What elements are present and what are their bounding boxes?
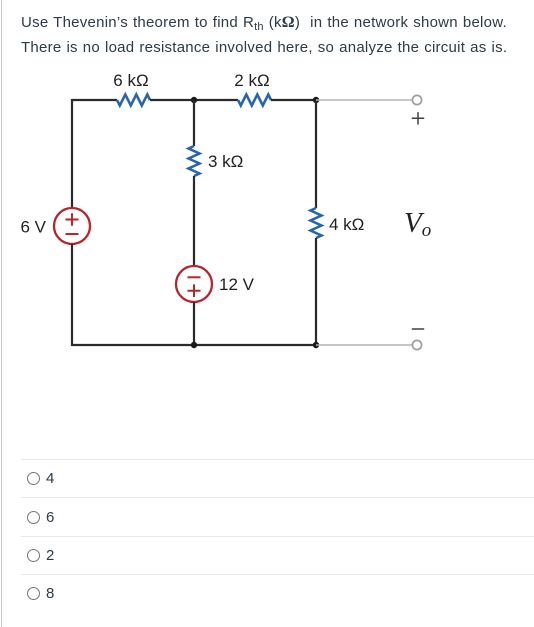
voltage source V1 6 V [20, 208, 90, 244]
resistor R3 3 kΩ [189, 146, 244, 176]
wire: top-left segment [72, 99, 117, 101]
wire: top right segment [271, 99, 316, 101]
svg-text:6 V: 6 V [20, 218, 46, 237]
node D (bottom of 4k branch) [313, 342, 319, 348]
wire: right branch lower [315, 238, 317, 346]
answer options [0, 459, 534, 613]
wire: output top (gray) [316, 99, 412, 101]
svg-text:3 kΩ: 3 kΩ [208, 152, 243, 171]
svg-text:Vo: Vo [404, 207, 431, 241]
wire: middle branch lower [193, 302, 195, 345]
node B (junction top of 4k branch) [313, 97, 319, 103]
voltage source V2 12 V [176, 266, 255, 302]
resistor R2 2 kΩ [234, 71, 271, 106]
label Vo [404, 207, 431, 241]
wire: bottom wire [72, 344, 316, 346]
left border line [1, 0, 2, 627]
minus mark at output [412, 328, 424, 330]
node C (bottom of 12V branch) [191, 342, 197, 348]
svg-text:6 kΩ: 6 kΩ [113, 71, 148, 90]
wire: top middle segment [150, 99, 238, 101]
svg-text:2 kΩ: 2 kΩ [234, 71, 269, 90]
plus mark at output [412, 112, 424, 124]
wire: right branch upper [315, 100, 317, 208]
resistor R4 4 kΩ [311, 208, 365, 238]
wire: output bottom (gray) [316, 344, 412, 346]
svg-text:12 V: 12 V [219, 275, 255, 294]
wire: left branch upper [71, 99, 73, 208]
terminal b (open, bottom) [412, 340, 421, 349]
question text [21, 11, 531, 60]
wire: middle branch between R3 and V2 [193, 176, 195, 266]
node A (junction top of 3k branch) [191, 97, 197, 103]
svg-text:4 kΩ: 4 kΩ [329, 215, 364, 234]
resistor R1 6 kΩ [113, 71, 150, 106]
wire: left branch lower [71, 244, 73, 346]
wire: middle branch upper [193, 100, 195, 146]
terminal a (open, top) [412, 95, 421, 104]
